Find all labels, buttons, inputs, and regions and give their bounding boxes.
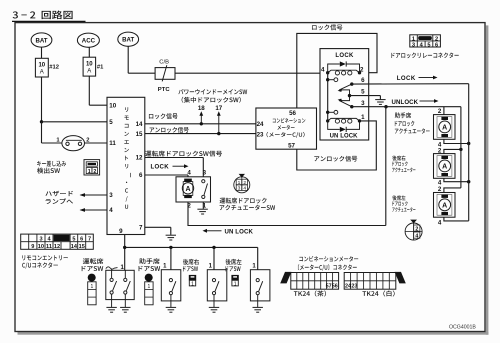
wire BAT2 to C/B [128, 72, 155, 74]
wire pin9 down to door SW bus [124, 235, 126, 271]
label lock signal top [312, 24, 342, 30]
label key-insert [37, 161, 66, 167]
arrow pin17 to PW SW [218, 115, 220, 134]
svg-text:A: A [442, 163, 447, 170]
wire rear-right actuator pin4 [444, 178, 469, 181]
wire lock signal meter pin56 to relay pin2 [297, 33, 377, 108]
door lock relay box [320, 49, 369, 140]
wire rear-left actuator pin2 [444, 188, 461, 193]
svg-text:5: 5 [427, 43, 430, 49]
wire bus to passenger SW [170, 247, 172, 269]
ground driver SW pole2 [120, 307, 130, 312]
svg-text:6: 6 [139, 172, 143, 179]
svg-text:#12: #12 [49, 65, 59, 71]
svg-text:1: 1 [91, 284, 94, 290]
circuit breaker C/B [155, 68, 175, 80]
svg-text:4: 4 [187, 170, 191, 177]
label power window main SW [178, 89, 247, 94]
svg-text:2: 2 [93, 169, 96, 175]
relay LOCK coil [328, 70, 360, 73]
label driver door SW line2 [82, 266, 104, 271]
ground driver SW pole1 [106, 307, 116, 312]
remote entry C/U connector pinout [21, 234, 94, 249]
ground relay pin5 [375, 100, 385, 105]
wire drop to actuator pin3 [202, 158, 204, 177]
wire pin6 to driver actuator pin4 [145, 174, 188, 176]
label TK24 brown [294, 290, 326, 296]
label detect SW [37, 168, 60, 174]
wire to C/U pin10 [89, 104, 107, 106]
junction lock signal / pin18 [200, 122, 203, 125]
svg-text:BAT: BAT [35, 37, 47, 44]
C/B diagonal element [162, 65, 167, 81]
wire pin1 to ground [202, 202, 204, 209]
wire key SW to C/U pin11 [85, 142, 108, 144]
wire fuse1 down [88, 76, 90, 105]
svg-text:2: 2 [415, 226, 418, 232]
svg-text:5: 5 [361, 89, 365, 96]
key SW bridge bar [66, 139, 82, 141]
wire unlock signal relay pin1 to meter pin57 [297, 121, 377, 170]
svg-text:ACC: ACC [82, 38, 96, 45]
fuse #1 [83, 57, 96, 76]
label passenger door SW line1 [139, 258, 159, 264]
svg-text:4: 4 [415, 233, 418, 239]
wire unlock vertical to driver actuator [385, 107, 387, 226]
svg-text:10: 10 [109, 102, 116, 109]
driver door SW tail squiggle [106, 267, 118, 269]
arrow UN LOCK direction [206, 230, 222, 232]
junction bus rear-right SW [212, 246, 215, 249]
wire door SW bus [125, 246, 258, 248]
junction BAT feed [40, 120, 43, 123]
svg-text:2: 2 [438, 186, 442, 193]
svg-text:15: 15 [136, 131, 143, 138]
svg-text:4: 4 [321, 66, 325, 73]
wire pin12 to driver actuator pin3 [145, 157, 204, 159]
svg-text:2: 2 [86, 137, 89, 143]
arrow pin18 to PW SW [200, 115, 202, 124]
svg-text:2: 2 [438, 148, 442, 155]
svg-text:A: A [87, 69, 91, 75]
svg-text:12: 12 [136, 155, 143, 162]
svg-text:14: 14 [136, 121, 143, 128]
rear left door SW [250, 270, 270, 301]
arrow unlock direction right [420, 100, 436, 102]
svg-text:#1: #1 [97, 64, 104, 70]
driver actuator SW arm [204, 184, 208, 196]
key-insert detect switch oval [62, 136, 85, 151]
svg-text:5: 5 [72, 236, 75, 242]
svg-text:10: 10 [38, 62, 45, 68]
svg-text:1: 1 [191, 281, 194, 287]
driver actuator SW contact top [202, 180, 205, 183]
driver actuator SW connector symbol [234, 177, 250, 193]
junction lock vertical pin4-1 [467, 142, 470, 145]
fuse #12 [35, 58, 48, 77]
wire lock vertical bus [468, 84, 470, 221]
label unlock signal left [150, 127, 189, 133]
label driver door SW line1 [83, 258, 103, 264]
driver door lock actuator-SW box [176, 177, 211, 202]
wire BAT2 down [127, 46, 129, 73]
junction lock vertical pin4-2 [467, 180, 470, 183]
svg-text:UNLOCK: UNLOCK [392, 99, 419, 106]
passenger door SW connector symbol [145, 274, 153, 282]
wire pin7 to ground [145, 226, 171, 228]
label to hazard lamp line2 [45, 198, 73, 204]
svg-text:UN LOCK: UN LOCK [225, 228, 254, 235]
battery BAT2 oval [118, 32, 139, 46]
meter label line3 [267, 132, 305, 138]
svg-text:OCG4001B: OCG4001B [449, 324, 476, 330]
key SW contact right [78, 142, 81, 145]
remote entry C/U box [107, 97, 145, 234]
svg-text:1: 1 [238, 180, 241, 186]
driver door SW connector symbol [88, 274, 96, 282]
wire driver actuator pin2 unlock feed [188, 202, 386, 226]
label driver door lock [220, 198, 267, 204]
svg-text:10: 10 [86, 61, 93, 67]
svg-text:1: 1 [234, 281, 237, 287]
arrow lock direction right [419, 77, 435, 79]
junction unlock vertical pin2-2 [459, 148, 462, 151]
svg-text:5: 5 [109, 119, 113, 126]
label driver door lock SW signal [145, 151, 222, 157]
relay contact common bracket [339, 90, 349, 101]
stub lower NO contact [328, 111, 334, 113]
wire down to key SW [41, 122, 43, 143]
svg-text:15: 15 [79, 244, 85, 250]
svg-text:3: 3 [238, 186, 241, 192]
meter label line2 [277, 125, 294, 130]
junction bus pin9 [123, 246, 126, 249]
arrow lock direction [173, 165, 186, 167]
wire rear-right actuator pin2 [444, 149, 461, 153]
svg-text:11: 11 [46, 244, 52, 250]
accessory ACC oval [77, 33, 99, 47]
svg-text:BAT: BAT [122, 37, 134, 44]
svg-text:1: 1 [148, 284, 151, 290]
svg-text:A: A [442, 124, 447, 131]
passenger door lock actuator [434, 115, 456, 140]
junction rail upper contact [326, 78, 329, 81]
key SW contact left [66, 142, 69, 145]
wire lock signal pin14 to meter pin24 [145, 123, 256, 125]
driver actuator SW contact bottom [202, 195, 205, 198]
label door lock relay connector [391, 52, 458, 58]
wire LOCK output [352, 83, 469, 85]
wire bus to rear-left SW [257, 247, 259, 269]
label actuator SW [220, 205, 276, 211]
svg-text:3: 3 [361, 100, 365, 107]
passenger door SW [161, 270, 181, 301]
svg-text:4: 4 [243, 186, 246, 192]
ground driver actuator [197, 209, 207, 214]
wire BAT1 to fuse12 [41, 47, 43, 58]
svg-text:6: 6 [361, 77, 365, 84]
svg-text:24: 24 [257, 121, 264, 128]
wire bus to rear-right SW [213, 247, 215, 269]
svg-text:A: A [442, 202, 447, 209]
relay upper moving arm [339, 84, 352, 90]
title underline [12, 20, 86, 22]
meter connector strip TK24 brown [291, 273, 339, 290]
svg-text:9: 9 [31, 244, 34, 250]
wire UNLOCK output [352, 106, 461, 108]
wire pin7 down [170, 227, 172, 235]
title 3-2 circuit diagram [13, 11, 73, 20]
driver door SW pole1 [111, 269, 113, 279]
svg-text:A: A [185, 186, 190, 193]
battery BAT1 oval [31, 33, 52, 47]
svg-text:2: 2 [438, 108, 442, 115]
wire pin5 to ground [350, 95, 381, 97]
driver door SW box [106, 270, 134, 299]
svg-text:9: 9 [119, 228, 123, 235]
stub actuator pin4 [187, 175, 189, 177]
relay lower moving arm [339, 101, 352, 107]
svg-text:3: 3 [39, 236, 42, 242]
driver actuator motor [183, 182, 193, 196]
svg-text:3: 3 [412, 43, 415, 49]
wire unlock vertical bus [460, 107, 462, 188]
junction rail lower contact [326, 111, 329, 114]
svg-text:24: 24 [345, 284, 351, 290]
stub upper NO contact [328, 79, 334, 81]
label unlock signal bottom [314, 156, 357, 162]
svg-text:LOCK: LOCK [397, 75, 416, 82]
ground C/U pin7 [166, 235, 176, 240]
svg-text:4: 4 [438, 219, 442, 226]
svg-text:7: 7 [88, 236, 91, 242]
label to hazard lamp line1 [45, 191, 73, 196]
svg-text:LOCK: LOCK [151, 163, 170, 170]
junction arm pin6 [350, 82, 353, 85]
wire to key SW pin1 [42, 142, 62, 144]
label rear right door SW line1 [183, 259, 199, 265]
svg-text:2: 2 [243, 180, 246, 186]
wire C/B to relay pin4 [175, 72, 320, 74]
label lock signal left [149, 113, 178, 119]
relay lower contact circle [334, 110, 338, 114]
svg-text:56: 56 [332, 284, 338, 290]
svg-text:4: 4 [109, 207, 113, 214]
svg-text:14: 14 [71, 244, 78, 250]
driver door SW pole2 [124, 270, 126, 278]
svg-text:3: 3 [109, 192, 113, 199]
wire C/U pin3 to hazard [81, 194, 108, 196]
svg-text:17: 17 [215, 105, 222, 112]
label TK24 white [362, 290, 394, 296]
svg-text:A: A [40, 70, 44, 76]
svg-text:1: 1 [412, 36, 415, 42]
wire unlock to passenger actuator pin2 [443, 107, 445, 115]
wire fuse12 down [41, 77, 43, 122]
svg-text:10: 10 [38, 244, 44, 250]
relay upper contact circle [334, 78, 338, 82]
svg-text:1: 1 [361, 114, 365, 121]
svg-text:2: 2 [435, 36, 438, 42]
label rear left door SW line2 [226, 266, 241, 271]
svg-text:UN LOCK: UN LOCK [330, 134, 359, 140]
rear right door lock actuator [434, 154, 456, 179]
svg-text:1: 1 [88, 169, 91, 175]
label combi meter connector line1 [299, 256, 358, 262]
door lock relay connector pinout [410, 35, 441, 47]
label combi meter connector line2 [298, 264, 357, 270]
label remote entry connector line1 [22, 255, 68, 260]
wire to C/U pin5 [42, 121, 108, 123]
rear left door SW connector symbol [231, 275, 238, 280]
relay UNLOCK coil [328, 118, 360, 121]
svg-text:LOCK: LOCK [335, 53, 354, 59]
label remote entry C/U (vertical) [124, 107, 130, 208]
svg-text:12: 12 [54, 244, 60, 250]
junction unlock to driver actuator [384, 105, 387, 108]
junction unlock signal / pin17 [217, 132, 220, 135]
svg-text:7: 7 [139, 225, 143, 232]
wire unlock signal pin15 to meter pin23 [145, 133, 256, 135]
svg-text:6: 6 [80, 236, 83, 242]
label passenger door SW line2 [139, 266, 161, 271]
wire C/U pin4 to hazard [81, 209, 108, 211]
rear right door SW connector symbol [189, 275, 196, 280]
combination meter box [256, 108, 317, 149]
relay LOCK coil diode [328, 64, 340, 73]
junction bracket to pin5 [348, 94, 351, 97]
wire pin5 down to ground [379, 96, 381, 100]
label remote entry connector line2 [22, 262, 58, 268]
label rear right door SW line2 [183, 266, 198, 271]
label rear left door SW line1 [226, 259, 242, 265]
wire ACC to fuse1 [88, 47, 90, 57]
svg-text:C/B: C/B [159, 60, 169, 66]
rear left door lock actuator [434, 193, 456, 218]
wire rear-left actuator pin4 [444, 217, 469, 221]
svg-text:57: 57 [326, 284, 332, 290]
key SW connector symbol [84, 160, 100, 175]
rear right door SW [207, 270, 227, 301]
svg-text:57: 57 [288, 143, 295, 150]
svg-text:56: 56 [289, 110, 296, 117]
svg-text:18: 18 [198, 105, 205, 112]
junction bus passenger SW [169, 246, 172, 249]
relay +B rail [327, 73, 329, 121]
rear-left actuator connector symbol [405, 223, 422, 240]
svg-text:6: 6 [435, 43, 438, 49]
svg-text:PTC: PTC [158, 87, 171, 93]
wire passenger actuator pin4 [444, 139, 469, 143]
svg-text:23: 23 [257, 132, 264, 139]
relay UNLOCK coil diode [328, 121, 340, 129]
svg-text:23: 23 [351, 284, 357, 290]
label central door lock SW [182, 97, 241, 103]
page border shadow [486, 25, 489, 334]
svg-text:11: 11 [109, 140, 116, 147]
junction arm pin3 [350, 105, 353, 108]
svg-text:3: 3 [203, 170, 207, 177]
meter connector strip TK24 white [344, 273, 396, 290]
meter label line1 [273, 118, 306, 123]
